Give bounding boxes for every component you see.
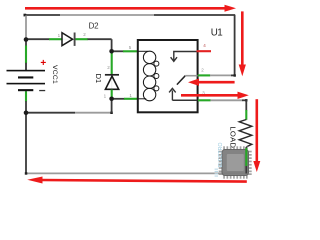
watermark chip inner square (227, 154, 244, 171)
svg-text:VCC1: VCC1 (51, 65, 58, 84)
wire pin3 dark end (242, 99, 247, 101)
watermark chip teeth right (248, 151, 252, 175)
wire battery negative lead (25, 101, 27, 113)
red arrow load downward (253, 99, 260, 172)
green current dash pin3 (198, 99, 211, 101)
diode D1 triangle (105, 76, 118, 89)
green current dash pin2 (198, 74, 210, 76)
corner cap D1 riser (110, 112, 113, 115)
svg-text:1: 1 (104, 93, 107, 98)
relay coil entry stroke (138, 50, 148, 52)
green current dash load bottom over chip (245, 148, 247, 166)
relay coil curl 1 (154, 61, 159, 66)
battery VCC1 plate short upper (18, 76, 33, 78)
battery VCC1 plate long top (7, 70, 46, 72)
battery minus sign (39, 90, 45, 91)
green current dash battery negative (25, 91, 27, 101)
wire pin3 gray (210, 99, 242, 101)
svg-text:2: 2 (83, 32, 86, 37)
wire left rail gray upper (25, 16, 27, 40)
node junction battery top (24, 37, 29, 42)
wire load top (245, 100, 247, 110)
wire D2 to corner (88, 38, 112, 40)
svg-text:D1: D1 (94, 74, 103, 84)
red arrow into switch leftward (188, 79, 235, 86)
green current dash load top (245, 110, 247, 120)
svg-text:2: 2 (201, 68, 204, 73)
node junction D1 bottom (109, 97, 114, 102)
relay switch blade horizontal gray (185, 75, 197, 77)
corner cap pin2 (234, 74, 236, 76)
wire top rail dark left segment (24, 14, 60, 16)
wire common to pin3 inside box (172, 99, 197, 101)
relay coil exit stroke (138, 98, 146, 100)
wire left rail lower (25, 113, 27, 174)
svg-text:LOAD: LOAD (229, 126, 238, 148)
watermark blue dashes (215, 169, 218, 177)
diode D2 cathode bar (74, 33, 76, 46)
wire load bottom over chip (245, 147, 247, 174)
relay coil curl 3 (154, 86, 159, 91)
wire negative horizontal gray (75, 112, 111, 114)
relay common riser (171, 90, 173, 100)
wire pin2 dark end (231, 74, 235, 76)
relay coil loop 4 (143, 88, 155, 100)
red arrow out of switch rightward (181, 92, 249, 99)
relay coil loop 2 (143, 64, 155, 76)
node junction D1 top (109, 49, 114, 54)
svg-text:4: 4 (203, 43, 206, 48)
green current dash pin5 (123, 50, 138, 52)
svg-text:1: 1 (129, 93, 132, 98)
relay common arrowhead up (169, 88, 176, 92)
watermark chip teeth top (223, 146, 248, 150)
red arrow right downward (239, 11, 246, 76)
relay pin4 red stub (197, 50, 212, 52)
watermark chip teeth left (219, 151, 223, 175)
svg-text:5: 5 (129, 45, 132, 50)
wire battery positive lead (25, 40, 27, 47)
node junction battery bottom (24, 111, 29, 116)
svg-text:D2: D2 (89, 22, 100, 31)
resistor LOAD zigzag (239, 120, 252, 147)
battery VCC1 plate long lower (7, 83, 46, 85)
relay coil curl 2 (154, 74, 159, 79)
green current dash D1 bottom (111, 90, 113, 99)
red arrow top rightward (25, 5, 236, 12)
corner cap bottom-left (25, 172, 28, 175)
svg-text:2: 2 (107, 65, 110, 70)
relay coil loop 3 (143, 76, 155, 88)
wire battery bottom stub (25, 91, 27, 92)
wire corner down to node (111, 39, 113, 51)
watermark chip teeth bottom (223, 175, 248, 179)
wire negative horizontal dark (26, 112, 75, 114)
wire top rail gray middle segment (60, 14, 154, 16)
green current dash D1 top (111, 52, 113, 74)
relay switch blade diagonal (177, 76, 185, 85)
svg-text:U1: U1 (211, 27, 223, 38)
green current dash after D2 (76, 38, 88, 40)
wire D2 anode dark (26, 38, 50, 40)
battery VCC1 plate short bottom (18, 89, 33, 91)
relay coil loop 1 (143, 51, 155, 63)
wire bottom rail gray (26, 172, 246, 174)
green current dash pin1 (124, 98, 138, 100)
wire top rail dark right segment (154, 14, 235, 16)
wire right rail from top to relay pin 2 (234, 15, 236, 76)
diode D1 cathode bar (105, 74, 119, 76)
relay NC arrowhead down (171, 57, 177, 61)
wire through D2 faint (62, 38, 73, 40)
wire coil pin1 dark (112, 98, 125, 100)
wire coil pin5 dark (112, 50, 124, 52)
diode D2 triangle (62, 33, 73, 46)
svg-text:+: + (40, 58, 46, 69)
wire battery top stub (25, 63, 27, 70)
corner cap top-left (24, 14, 27, 17)
svg-text:ELECTRO: ELECTRO (218, 143, 224, 168)
wire pin2 gray (210, 74, 232, 76)
green current dash before D2 (49, 38, 62, 40)
green current dash battery positive (25, 46, 27, 64)
watermark chip body (222, 150, 249, 176)
red arrow bottom leftward (27, 177, 247, 184)
wire D1 riser (111, 99, 113, 113)
svg-text:1: 1 (58, 33, 61, 38)
corner cap pin3 (245, 99, 247, 101)
wire through D1 faint (111, 75, 113, 90)
relay NC contact line (174, 52, 197, 61)
relay U1 box (138, 40, 198, 112)
